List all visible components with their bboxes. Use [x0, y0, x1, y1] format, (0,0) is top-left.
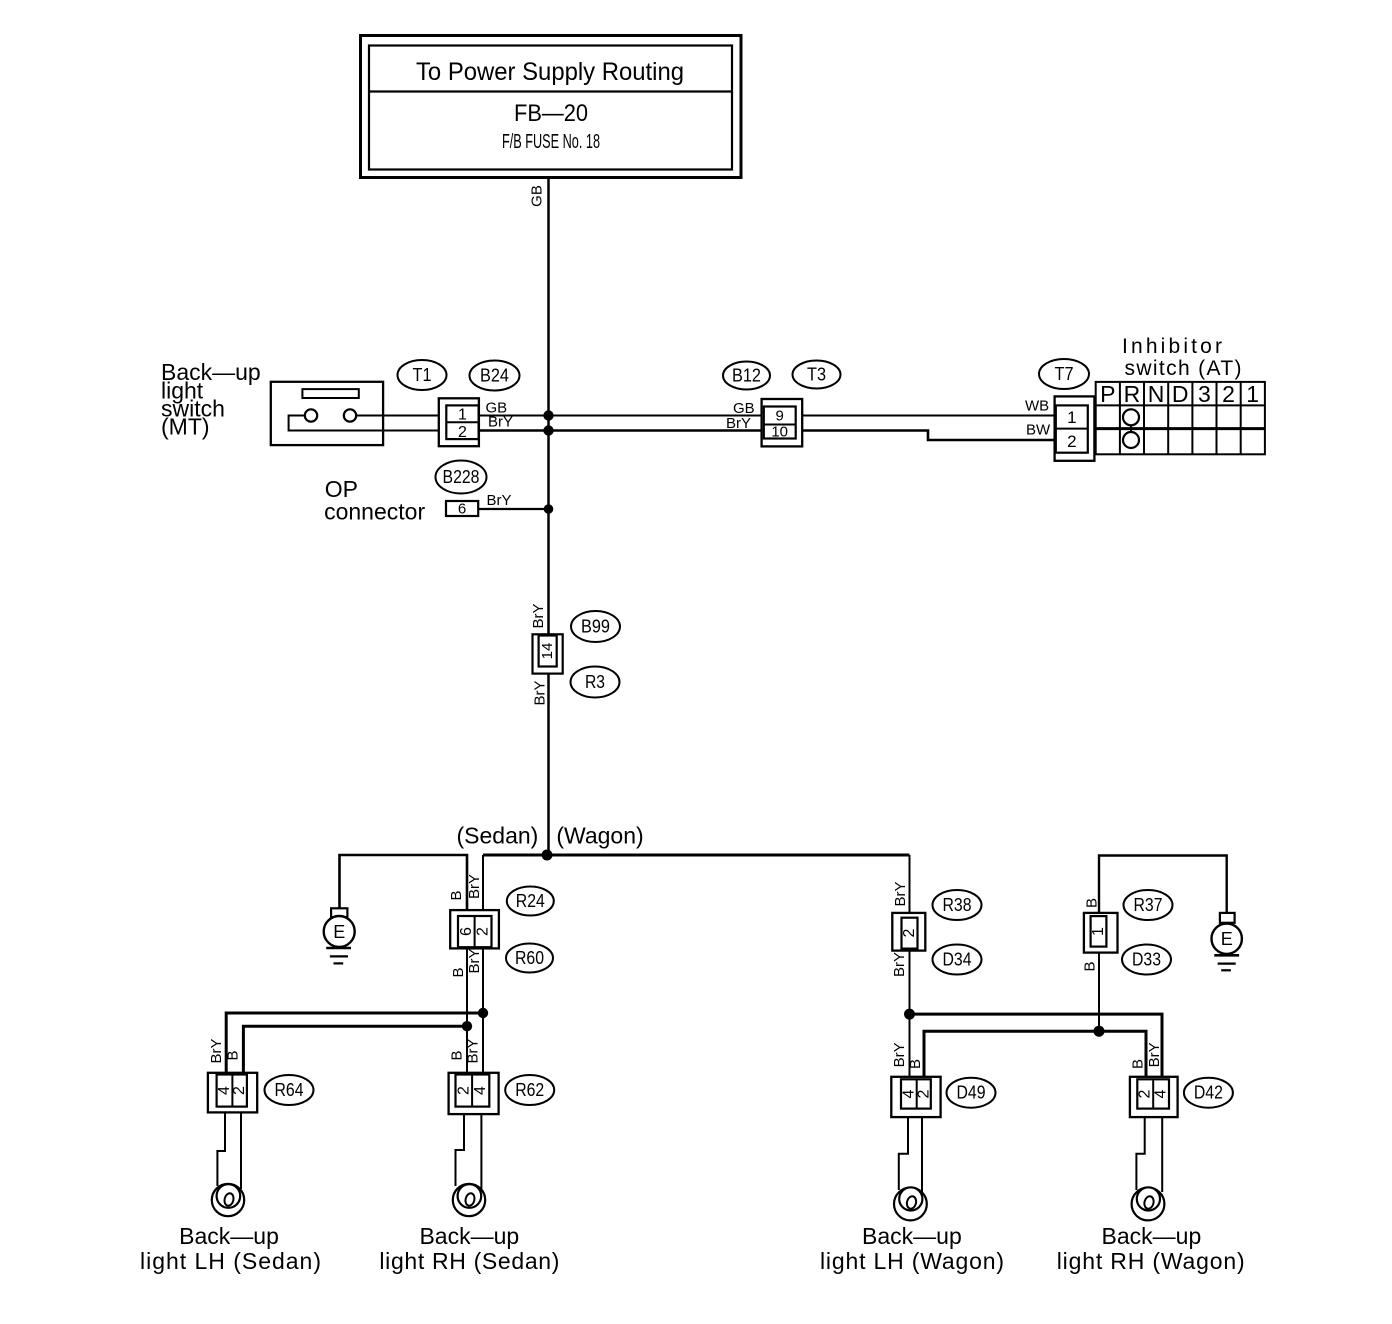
ellipse R62 [505, 1075, 554, 1105]
junction dot trunk/bus [542, 850, 553, 861]
wire: ground segment right (R37 pin 1 to E right, B) [1099, 856, 1227, 913]
svg-text:BrY: BrY [487, 492, 512, 509]
wire: wagon link B from D49 pin 2 to D42 pin 2 [924, 1031, 1146, 1079]
wires R62 to bulb RH sedan [456, 1114, 482, 1189]
wire BrY: switch loop to T1 to B12, step down to T7 pin2 [289, 416, 447, 431]
wire GB: switch to T1 to B12 (horizontal) [356, 415, 1056, 417]
bulb back-up light RH wagon [1132, 1188, 1165, 1221]
connector R38 outer shell [892, 913, 925, 951]
svg-text:light RH (Wagon): light RH (Wagon) [1057, 1248, 1245, 1274]
wires D49 to bulb LH wagon [899, 1117, 922, 1192]
inhibitor R-position contact circle (row 2) [1123, 432, 1139, 448]
connector R37 outer shell [1084, 913, 1118, 953]
svg-text:3: 3 [1198, 381, 1211, 407]
connector R64 pin box 4|2 [217, 1075, 247, 1107]
svg-text:E: E [1221, 929, 1233, 949]
svg-text:D34: D34 [943, 950, 972, 970]
bulb back-up light RH sedan [453, 1184, 485, 1216]
svg-text:BrY: BrY [488, 414, 513, 431]
svg-text:T7: T7 [1055, 364, 1074, 384]
power supply box inner frame [369, 46, 732, 170]
connector D49 pin box 4|2 [901, 1079, 931, 1108]
svg-text:Back—up: Back—up [179, 1223, 279, 1249]
svg-text:2: 2 [901, 928, 918, 937]
svg-text:2: 2 [458, 424, 467, 441]
svg-text:2: 2 [1222, 381, 1235, 407]
svg-text:B99: B99 [581, 617, 610, 637]
wires D42 to bulb RH wagon [1136, 1117, 1162, 1192]
svg-text:BrY: BrY [466, 948, 483, 973]
svg-text:1: 1 [458, 407, 467, 424]
wires R64 to bulb LH sedan [217, 1112, 241, 1189]
inhibitor header letters P R N D 3 2 1 [1100, 381, 1259, 407]
svg-text:B: B [907, 1059, 924, 1069]
svg-text:B24: B24 [480, 366, 509, 386]
back-up light switch (MT) body [271, 382, 383, 445]
wire: B228 pin 6 to trunk [478, 508, 548, 510]
wire: BrY down from R24 to R62 pin 4 [482, 947, 484, 1075]
connector B12/T3 pin box [764, 407, 796, 439]
inhibitor switch bold row divider (wire) [1096, 427, 1265, 430]
svg-text:BrY: BrY [1146, 1042, 1163, 1067]
connector T7 pin box [1056, 405, 1088, 452]
switch contact circle right [344, 409, 356, 421]
connector D42 outer shell [1130, 1077, 1178, 1117]
junction dot BrY link [478, 1008, 488, 1018]
wire: ground segment left (E to R24 pin 6, B) [340, 855, 468, 916]
wire: wagon link BrY to D42 pin 4 [910, 1014, 1163, 1079]
connector R24/R60 pin box 6|2 [458, 916, 492, 947]
ellipse B24 [470, 361, 520, 391]
svg-text:R60: R60 [515, 948, 544, 968]
inhibitor switch table grid [1096, 382, 1265, 454]
svg-text:FB—20: FB—20 [514, 100, 588, 127]
contact link tick between circles [1130, 425, 1132, 433]
ellipse R60 [506, 944, 553, 973]
bulb back-up light LH sedan [212, 1184, 244, 1216]
svg-text:Back—up: Back—up [1102, 1223, 1202, 1249]
bulb back-up light LH wagon [894, 1188, 927, 1221]
svg-text:GB: GB [529, 185, 546, 207]
svg-text:14: 14 [539, 643, 556, 660]
svg-text:Back—up: Back—up [862, 1223, 962, 1249]
svg-text:WB: WB [1025, 398, 1049, 415]
svg-text:B: B [1083, 898, 1100, 908]
connector D49 outer shell [891, 1077, 940, 1117]
svg-text:R38: R38 [943, 895, 972, 915]
junction dot wagon B link [1094, 1026, 1105, 1037]
ground E right: circle [1212, 924, 1242, 954]
svg-text:BrY: BrY [891, 1042, 908, 1067]
svg-text:To Power Supply Routing: To Power Supply Routing [416, 58, 684, 86]
junction dot wagon BrY link [904, 1009, 915, 1020]
connector R38 pin box 2 [902, 918, 918, 949]
svg-text:BrY: BrY [726, 415, 751, 432]
svg-text:T1: T1 [413, 365, 432, 385]
svg-text:2: 2 [231, 1086, 248, 1095]
ellipse D49 [947, 1078, 996, 1108]
svg-text:B: B [225, 1050, 242, 1060]
svg-text:B: B [448, 890, 465, 900]
ground E right: terminal rect [1220, 913, 1235, 923]
svg-text:N: N [1148, 381, 1165, 407]
connector R62 pin box 2|4 [456, 1075, 490, 1107]
ellipse R64 [265, 1075, 314, 1105]
svg-text:1: 1 [1067, 408, 1076, 427]
wire: B from R37 down to wagon link [1098, 953, 1100, 1032]
connector R62 outer shell [449, 1073, 499, 1114]
svg-text:(Wagon): (Wagon) [556, 823, 643, 849]
svg-text:4: 4 [1153, 1089, 1170, 1098]
svg-text:Inhibitor: Inhibitor [1122, 335, 1222, 358]
connector R24/R60 outer shell [450, 910, 499, 948]
wire: B down from R24 to R62 pin 2 [466, 947, 468, 1075]
svg-text:R3: R3 [585, 672, 605, 692]
svg-text:BrY: BrY [891, 952, 908, 977]
ellipse R3 [571, 667, 620, 698]
svg-text:BrY: BrY [892, 881, 909, 906]
svg-text:6: 6 [458, 501, 466, 518]
ellipse B228 [436, 461, 487, 494]
svg-text:BrY: BrY [532, 680, 549, 705]
svg-text:B: B [1129, 1059, 1146, 1069]
ellipse B99 [571, 611, 620, 642]
svg-text:D33: D33 [1132, 950, 1161, 970]
svg-text:R24: R24 [516, 891, 545, 911]
svg-text:BrY: BrY [530, 603, 547, 628]
svg-text:BrY: BrY [464, 1038, 481, 1063]
ellipse R38 [933, 890, 982, 920]
inhibitor R-position contact circle (row 1) [1123, 409, 1139, 425]
ground E left: terminal rect [331, 908, 347, 917]
connector D42 pin box 2|4 [1137, 1079, 1169, 1108]
ellipse T3 [793, 361, 841, 389]
connector B99/R3 pin box 14 [539, 636, 557, 667]
svg-text:2: 2 [915, 1089, 932, 1098]
ellipse D33 [1122, 945, 1171, 975]
svg-text:light LH (Wagon): light LH (Wagon) [820, 1248, 1004, 1274]
svg-text:1: 1 [1090, 927, 1107, 936]
svg-text:D42: D42 [1194, 1083, 1223, 1103]
svg-text:D49: D49 [957, 1083, 986, 1103]
junction dot GB/trunk [543, 410, 553, 420]
svg-text:1: 1 [1246, 381, 1259, 407]
svg-text:BrY: BrY [208, 1038, 225, 1063]
svg-text:2: 2 [1067, 432, 1076, 451]
svg-text:B: B [450, 967, 467, 977]
ellipse T1 [398, 360, 447, 390]
svg-text:switch (AT): switch (AT) [1125, 357, 1242, 380]
svg-text:6: 6 [458, 927, 475, 936]
wire: sedan link BrY to R64 pin 4 [226, 1013, 483, 1075]
junction dot BrY/trunk [543, 425, 553, 435]
connector B12/T3 outer shell [762, 399, 803, 446]
svg-text:2: 2 [455, 1086, 472, 1095]
svg-text:light RH (Sedan): light RH (Sedan) [379, 1248, 559, 1274]
ellipse R37 [1124, 890, 1173, 920]
svg-text:P: P [1100, 381, 1115, 407]
wire: main GB trunk from power box down to sedan/wagon bus [547, 178, 550, 856]
svg-text:Back—up: Back—up [419, 1223, 519, 1249]
svg-text:light LH (Sedan): light LH (Sedan) [140, 1248, 321, 1274]
svg-text:10: 10 [771, 424, 788, 441]
junction dot B228/trunk [544, 504, 554, 514]
svg-text:T3: T3 [807, 365, 826, 385]
ground E right: earth strokes [1214, 954, 1239, 957]
connector T7 outer shell [1055, 396, 1095, 460]
svg-text:BrY: BrY [466, 874, 483, 899]
ellipse B12 [723, 362, 770, 390]
svg-text:B: B [1082, 961, 1099, 971]
power supply box FB-20 outer frame [361, 36, 742, 178]
junction dot B link [462, 1021, 472, 1031]
connector R37 pin box 1 [1091, 916, 1107, 947]
svg-text:R: R [1124, 381, 1141, 407]
connector R64 outer shell [208, 1073, 257, 1113]
wire: power bus (BrY) from R24 pin 2 to wagon drop [483, 854, 910, 857]
svg-text:(MT): (MT) [161, 414, 210, 440]
ground E left: circle [324, 916, 355, 947]
ground E left: earth strokes [326, 947, 351, 950]
svg-text:B: B [449, 1050, 466, 1060]
ellipse R24 [507, 887, 554, 916]
ellipse D42 [1184, 1078, 1233, 1108]
ellipse T7 [1039, 359, 1089, 389]
wire: BrY from R38 down to D49 pin 4 [909, 949, 911, 1080]
svg-text:R64: R64 [275, 1080, 304, 1100]
svg-text:4: 4 [472, 1086, 489, 1095]
svg-text:F/B FUSE No. 18: F/B FUSE No. 18 [502, 131, 600, 153]
connector T1/B24 pin box [446, 405, 478, 439]
svg-text:(Sedan): (Sedan) [456, 823, 538, 849]
ellipse D34 [933, 945, 982, 975]
switch contact circle left [305, 409, 317, 421]
svg-text:2: 2 [475, 927, 492, 936]
svg-text:R37: R37 [1134, 895, 1163, 915]
connector T1/B24 outer shell [439, 398, 479, 446]
switch actuator bar [302, 389, 358, 398]
connector B99/R3 outer shell [533, 634, 563, 673]
svg-text:D: D [1172, 381, 1189, 407]
svg-text:2: 2 [1137, 1089, 1154, 1098]
svg-text:R62: R62 [515, 1080, 544, 1100]
svg-text:connector: connector [324, 499, 425, 525]
connector B228 pin 6 box [446, 501, 478, 516]
svg-text:E: E [333, 922, 345, 942]
svg-text:B12: B12 [732, 366, 761, 386]
svg-text:9: 9 [776, 408, 784, 425]
wire: sedan link B to R64 pin 2 [243, 1026, 467, 1074]
svg-text:BW: BW [1026, 422, 1051, 439]
power supply box divider [369, 90, 732, 92]
svg-text:B228: B228 [443, 467, 480, 487]
